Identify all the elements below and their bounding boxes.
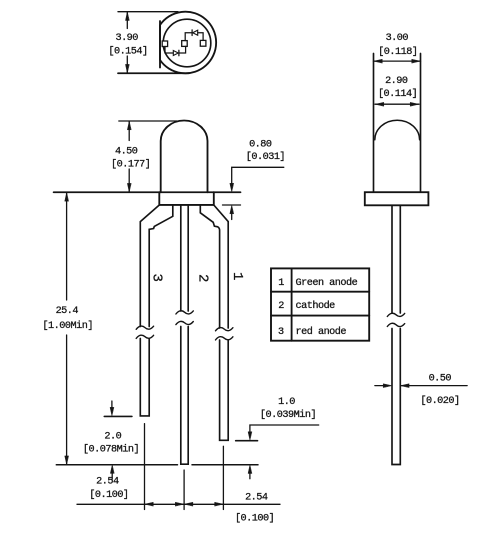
dim 2.0 up arrow (110, 465, 114, 474)
dim 0.50 left line (375, 385, 384, 387)
svg-text:0.50: 0.50 (429, 374, 452, 385)
svg-text:[0.154]: [0.154] (108, 45, 147, 57)
dim 0.80 up arrow (230, 205, 234, 214)
dim 3.00 right arrow (412, 59, 421, 63)
svg-text:[0.039Min]: [0.039Min] (260, 409, 316, 421)
lead 1 end extension line (236, 440, 258, 442)
dim 3.90 top extension line (118, 11, 178, 13)
svg-text:3: 3 (278, 327, 284, 338)
lead 1 lower segment (220, 340, 229, 440)
dim 0.50 right arrow (401, 384, 410, 388)
side view flange (365, 192, 429, 205)
svg-text:[0.100]: [0.100] (235, 512, 274, 524)
dim 2.90 left arrow (375, 102, 384, 106)
flange top line / extension line y=192 (54, 191, 241, 193)
svg-text:25.4: 25.4 (56, 306, 79, 317)
top view inner circle (163, 19, 211, 67)
lead 1 pitch extension line (222, 446, 224, 509)
side view dome arc (375, 120, 420, 140)
dim 25.4 down arrow (65, 456, 69, 465)
lead 1 break squiggles (216, 328, 233, 340)
lead 3 pitch extension line (144, 424, 146, 510)
svg-text:[0.118]: [0.118] (378, 46, 417, 58)
lead 3 inner edge upper (149, 205, 173, 327)
svg-text:3.00: 3.00 (386, 33, 409, 44)
dim 0.80 leader line (232, 167, 284, 184)
side view lead upper segment (392, 205, 400, 313)
svg-text:0.80: 0.80 (249, 139, 272, 150)
front view flange (159, 192, 214, 205)
dim 2.54 arrow right-out at lead1 (215, 502, 224, 506)
svg-text:3.90: 3.90 (115, 33, 138, 44)
pad pin2 (middle square) (182, 41, 188, 47)
dim 3.00 line (374, 60, 421, 62)
side view lead lower segment (392, 329, 400, 465)
dim 1.0 up arrow (248, 465, 252, 474)
table outer border (271, 268, 369, 340)
dim 3.90 down arrow (125, 64, 129, 73)
side view body left line (373, 54, 375, 193)
dim 25.4 vertical line (66, 193, 68, 464)
svg-text:[0.020]: [0.020] (420, 395, 459, 407)
lead 1 inner edge upper (200, 205, 219, 328)
lead 2 lower segment (181, 327, 188, 465)
wire pin3 to red diode (165, 47, 173, 54)
dim 2.0 up arrow tail (111, 473, 113, 480)
dim 3.90 up arrow (125, 12, 129, 21)
svg-text:[0.078Min]: [0.078Min] (83, 444, 139, 456)
lead 2 break squiggles (176, 311, 193, 325)
lead 2 pitch extension line (183, 470, 185, 510)
baseline y=464.7 (56, 464, 258, 466)
table column divider (291, 268, 293, 340)
top view outer circle with flat (160, 12, 216, 74)
table row divider 1 (271, 291, 369, 293)
dim 3.90 vertical line (126, 12, 128, 73)
dim 4.50 vertical line (128, 121, 130, 191)
dim 1.0 up arrow tail (249, 473, 251, 479)
svg-text:1: 1 (278, 278, 284, 289)
red diode D-red cathode bar (178, 50, 180, 56)
dim 2.54 arrow right-in at lead2 (175, 502, 184, 506)
lead 1 outer edge upper (214, 205, 228, 328)
dim 1.0 down arrow (248, 432, 252, 441)
dim 2.54 arrow left-out at lead3 (145, 502, 154, 506)
top view flat edge (159, 21, 161, 68)
svg-text:2.90: 2.90 (385, 76, 408, 87)
dim 0.80 down arrow (230, 183, 234, 192)
dim 4.50 up arrow (127, 121, 131, 130)
svg-text:[0.177]: [0.177] (111, 159, 150, 171)
svg-text:4.50: 4.50 (115, 146, 138, 157)
wire green diode to pin1 (198, 33, 203, 41)
dim 3.90 bottom extension line (118, 72, 189, 74)
lead 2 upper segment (181, 205, 188, 311)
dim 2.54 bottom line (77, 503, 280, 505)
svg-text:2.0: 2.0 (104, 431, 121, 442)
dim 25.4 up arrow (65, 193, 69, 202)
svg-text:cathode: cathode (296, 300, 336, 312)
flange bottom extension line right (223, 204, 241, 206)
dim 2.90 right arrow (410, 102, 419, 106)
svg-text:2.54: 2.54 (96, 476, 119, 487)
dim 2.0 down arrow tail (111, 401, 113, 409)
svg-text:[0.031]: [0.031] (246, 151, 285, 163)
svg-text:2: 2 (195, 274, 211, 282)
front view dome and body (161, 120, 208, 192)
svg-text:3: 3 (148, 273, 164, 281)
dim 2.54 arrow left-in at lead2 (184, 502, 193, 506)
wire red diode to pin2 (179, 46, 186, 53)
svg-text:[0.100]: [0.100] (89, 489, 128, 501)
dim 2.90 line (375, 103, 419, 105)
green diode D-green triangle (193, 30, 198, 35)
side view body right line (420, 54, 422, 193)
svg-text:[0.114]: [0.114] (378, 88, 417, 100)
dim 1.0 leader line (250, 425, 319, 433)
svg-text:[1.00Min]: [1.00Min] (42, 320, 93, 332)
svg-text:red anode: red anode (296, 326, 347, 338)
svg-text:2.54: 2.54 (245, 492, 268, 503)
table row divider 2 (271, 315, 369, 317)
lead 3 lower segment (140, 339, 149, 416)
red diode D-red triangle (173, 51, 178, 56)
dim 3.00 left arrow (374, 59, 383, 63)
pad pin1 (right square) (200, 40, 206, 46)
wire pin2 to green diode (185, 33, 192, 41)
dim 2.0 down arrow (110, 407, 114, 416)
green diode D-green cathode bar (191, 30, 193, 36)
dim 0.50 right line (401, 385, 468, 387)
svg-text:1.0: 1.0 (278, 397, 295, 408)
svg-text:1: 1 (229, 272, 245, 280)
lead 3 break squiggles (136, 326, 153, 338)
dim 4.50 down arrow (127, 183, 131, 192)
lead 3 end extension line (104, 415, 132, 417)
svg-text:Green anode: Green anode (296, 277, 358, 289)
side view lead break squiggles (387, 313, 404, 326)
lead 3 outer edge upper (140, 205, 159, 327)
dim 4.50 top extension line (119, 120, 177, 122)
dim 0.50 left arrow (383, 384, 392, 388)
dim 0.80 up arrow tail (231, 213, 233, 220)
svg-text:2: 2 (278, 301, 284, 312)
pad pin3 (left square) (162, 41, 167, 47)
